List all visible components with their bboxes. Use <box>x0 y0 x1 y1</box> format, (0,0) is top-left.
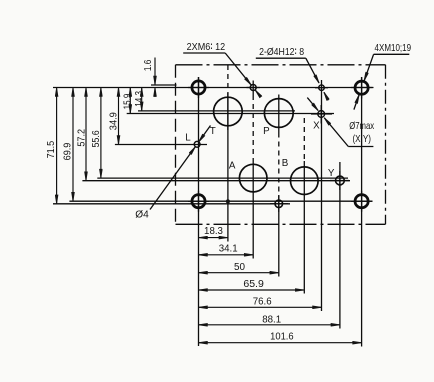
dimension 18.3 <box>199 237 227 239</box>
bolt hole M10 bottom-right crosshair <box>351 200 373 202</box>
svg-text:(X,Y): (X,Y) <box>352 134 371 145</box>
svg-text:101.6: 101.6 <box>270 332 294 343</box>
svg-text:2XM6∶ 12: 2XM6∶ 12 <box>187 42 226 53</box>
svg-text:34.1: 34.1 <box>219 244 238 255</box>
plate outline bottom edge (chain line) <box>176 223 386 225</box>
port B circle <box>291 167 319 195</box>
leader Ø4 to L <box>150 147 195 210</box>
svg-text:Ø4: Ø4 <box>135 209 149 220</box>
svg-text:Ø7max: Ø7max <box>349 121 375 132</box>
svg-text:57.2: 57.2 <box>77 129 88 147</box>
row line through P and X <box>127 113 334 115</box>
dimension 1.6 upper arrow <box>154 58 156 85</box>
row line r0 through top bolt holes <box>53 87 374 89</box>
dimension 34.9 <box>118 88 120 144</box>
svg-text:A: A <box>229 160 236 171</box>
svg-text:P: P <box>263 126 270 137</box>
column line 50 upper solid (P crosshair) <box>278 95 280 133</box>
row line through B and Y <box>82 180 350 182</box>
row line through bottom bolt holes <box>69 200 372 202</box>
column line 18.3 dashed upper part <box>227 65 229 97</box>
port T circle <box>214 97 243 126</box>
svg-text:65.9: 65.9 <box>243 279 264 290</box>
leader Ø7max to X <box>324 118 348 147</box>
bolt hole M10 bottom-right <box>355 195 368 208</box>
column line 50 solid lower <box>278 196 280 277</box>
row line through T <box>138 110 295 112</box>
dimension 14.3 <box>141 88 143 110</box>
leader 4XM10 to top-right bolt <box>364 54 373 80</box>
svg-text:71.5: 71.5 <box>46 140 57 158</box>
column line 34.1 dashed middle <box>252 95 254 159</box>
underline Ø7max label <box>348 146 373 148</box>
column line 76.6 through pin and X <box>321 80 323 311</box>
bolt hole M10 bottom-left crosshair <box>188 200 209 202</box>
underline 2XM6 label <box>183 52 225 54</box>
column line 34.1 solid lower <box>252 159 254 259</box>
column line 65.9 solid lower <box>303 161 305 294</box>
row line through L <box>115 144 207 146</box>
svg-text:88.1: 88.1 <box>262 314 281 325</box>
dimension 50 <box>199 272 278 274</box>
pin hole bottom (filled dot) <box>226 199 230 203</box>
svg-text:50: 50 <box>234 262 246 273</box>
dimension 1.6 lower arrow <box>154 88 156 97</box>
bolt hole M10 top-left crosshair <box>188 87 209 89</box>
column line 65.9 dashed upper <box>303 118 305 161</box>
dimension 71.5 <box>56 88 58 203</box>
plate outline left edge (dashed line) <box>175 65 177 225</box>
svg-text:4XM10;19: 4XM10;19 <box>375 43 412 54</box>
leader 2XM6 to hole <box>225 53 251 85</box>
row line at 71.5 <box>53 203 290 205</box>
column line 101.6 through right bolts <box>361 77 363 347</box>
svg-text:T: T <box>210 126 216 137</box>
dimension 88.1 <box>199 324 339 326</box>
svg-text:2-Ø4H12∶ 8: 2-Ø4H12∶ 8 <box>259 47 304 58</box>
port L hole <box>194 141 200 147</box>
svg-text:1.6: 1.6 <box>143 59 154 71</box>
dimension 69.9 <box>72 88 74 201</box>
svg-text:34.9: 34.9 <box>109 112 120 130</box>
plate outline right edge (chain line) <box>385 65 387 225</box>
column line 88.1 through Y <box>339 162 341 329</box>
column line 34.1 upper solid (M6 crosshair) <box>252 81 254 96</box>
svg-text:14.3: 14.3 <box>134 91 145 107</box>
dimension 76.6 <box>199 306 321 308</box>
svg-text:76.6: 76.6 <box>253 296 272 307</box>
column line c0 through left bolts <box>198 77 200 346</box>
leader 2-Ø4H12 to pin hole <box>306 58 319 83</box>
M6 hole bottom <box>275 200 283 208</box>
row line through A <box>97 177 348 179</box>
dimension 57.2 <box>85 88 87 180</box>
svg-text:X: X <box>313 121 320 132</box>
pin hole Ø4 top <box>319 85 325 91</box>
svg-text:B: B <box>282 158 289 169</box>
svg-text:Y: Y <box>328 168 335 179</box>
bolt hole M10 top-right <box>355 81 368 94</box>
svg-text:18.3: 18.3 <box>204 226 223 237</box>
underline 2-Ø4H12 label <box>256 57 306 59</box>
svg-text:69.9: 69.9 <box>63 143 74 161</box>
dimension 34.1 <box>199 254 253 256</box>
dimension 65.9 <box>199 289 304 291</box>
svg-text:15.9: 15.9 <box>123 94 134 110</box>
bolt hole M10 top-right crosshair <box>351 87 373 89</box>
column line 50 dashed middle <box>278 133 280 197</box>
dimension 101.6 <box>199 342 361 344</box>
port X hole <box>318 111 325 118</box>
port Y hole <box>336 176 345 185</box>
column line 18.3 solid part <box>227 97 229 242</box>
port P circle <box>264 99 293 128</box>
row stub line at -1.6 <box>151 84 177 86</box>
svg-text:L: L <box>185 133 191 144</box>
bolt hole M10 bottom-left <box>192 195 205 208</box>
dimension 55.6 <box>100 88 102 178</box>
svg-text:55.6: 55.6 <box>91 130 102 148</box>
dimension 15.9 <box>129 88 131 113</box>
underline 4XM10 label <box>374 53 410 55</box>
M6 hole top <box>250 85 256 91</box>
port A circle <box>239 164 267 192</box>
bolt hole M10 top-left <box>192 81 205 94</box>
plate outline top edge (chain line) <box>176 64 386 66</box>
